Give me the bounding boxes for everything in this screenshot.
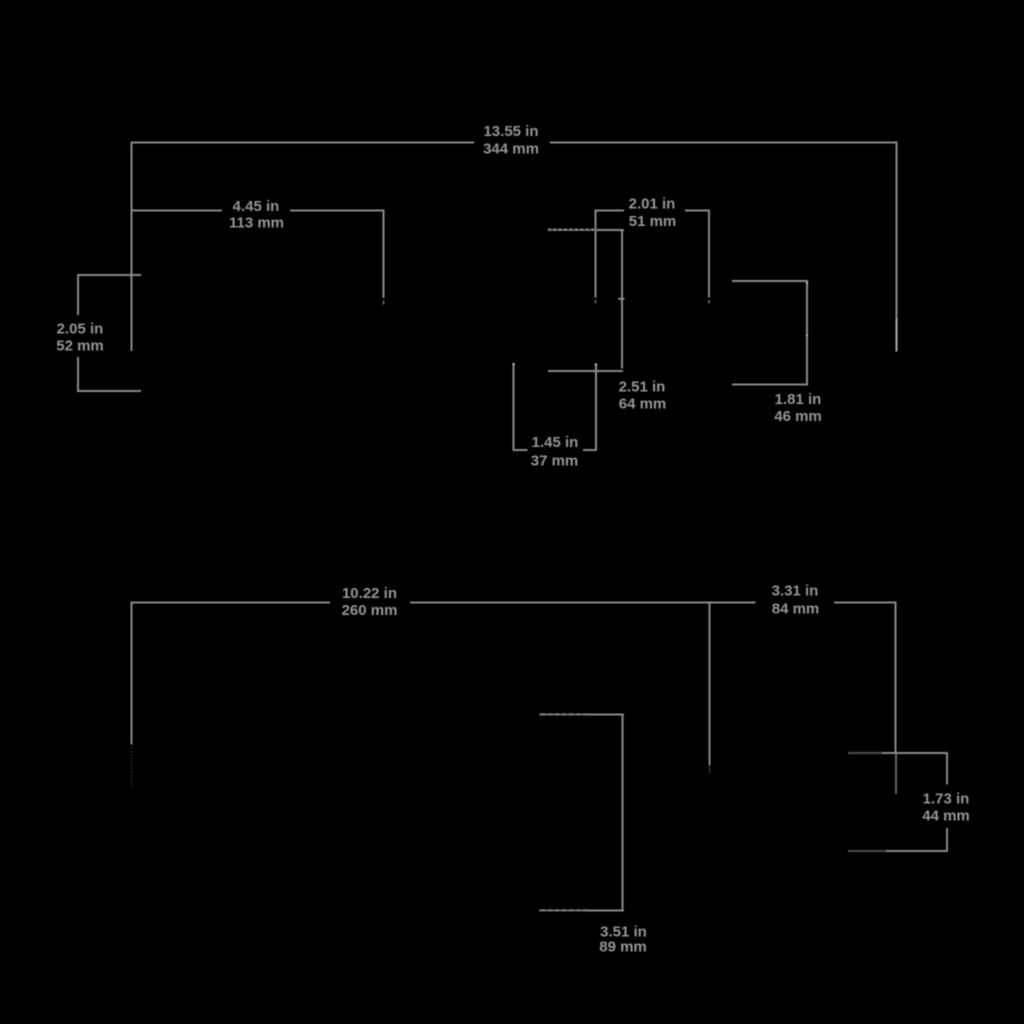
svg-text:13.55 in: 13.55 in (483, 123, 538, 140)
dim 3.31in right extension vertical thin lower part (895, 753, 897, 794)
svg-text:64 mm: 64 mm (619, 396, 667, 413)
svg-text:4.45 in: 4.45 in (233, 198, 280, 215)
dim 2.51in top tick bright dashes (548, 229, 596, 231)
svg-text:46 mm: 46 mm (774, 408, 822, 425)
svg-text:2.51 in: 2.51 in (619, 379, 666, 396)
dim 1.45in right extension vertical (595, 364, 597, 451)
dim 2.05in vertical lower segment (77, 357, 79, 392)
dim 3.51in right vertical (622, 714, 624, 912)
dim 2.05in top tick (77, 274, 141, 276)
svg-text:52 mm: 52 mm (56, 338, 104, 355)
dim 13.55in left extension vertical (131, 142, 133, 352)
svg-text:260 mm: 260 mm (342, 602, 398, 619)
svg-text:44 mm: 44 mm (922, 808, 970, 825)
dim 3.31in right extension vertical (895, 602, 897, 754)
dim 2.05in bottom tick (77, 390, 141, 392)
dim 1.73in top horizontal dark part (848, 752, 882, 754)
dim 3.51in bottom horizontal solid part (540, 910, 542, 912)
dim 1.73in right extension vertical lower (946, 828, 948, 852)
dim 1.45in bottom horizontal right segment (583, 449, 597, 451)
svg-text:1.73 in: 1.73 in (923, 791, 970, 808)
svg-text:2.05 in: 2.05 in (57, 321, 104, 338)
dim 3.51in top horizontal bright dashes (541, 713, 587, 715)
artifact dot 1.81 top corner (806, 282, 808, 284)
dim 3.51in bottom horizontal bright dashes (541, 909, 587, 911)
dim 10.22in divider vertical faint tail (709, 765, 711, 773)
svg-text:113 mm: 113 mm (229, 215, 284, 232)
dim 2.01in left extension vertical (595, 210, 597, 298)
svg-text:344 mm: 344 mm (483, 141, 539, 158)
svg-text:3.31 in: 3.31 in (772, 583, 819, 600)
dim 10.22in left extension dark dashed tail (131, 744, 133, 788)
dim 10.22in horizontal left segment (131, 602, 330, 604)
dim 10.22in horizontal middle segment (410, 602, 756, 604)
dim 2.51in top tick dark underlay (548, 229, 596, 231)
dim 13.55in right extension vertical lower (896, 319, 898, 352)
dim 4.45in horizontal line right segment (290, 210, 385, 212)
dim 4.45in right extension vertical (383, 210, 385, 299)
dim 10.22in divider vertical (709, 602, 711, 766)
dim 13.55in horizontal line right segment (550, 142, 898, 144)
artifact tick 2.51 vertical crossing (618, 298, 625, 300)
dim 13.55in right extension vertical upper (896, 142, 898, 319)
dim 2.01in left extension nub (595, 300, 597, 304)
dim 13.55in horizontal line left segment (131, 142, 474, 144)
svg-text:37 mm: 37 mm (531, 453, 579, 470)
dim 3.51in top horizontal solid part (540, 714, 542, 716)
dim 3.51in top horizontal dark underlay (541, 714, 587, 716)
svg-text:89 mm: 89 mm (599, 939, 647, 956)
dim 2.01in horizontal right segment (685, 210, 710, 212)
dim 2.01in right extension vertical (708, 210, 710, 298)
dim 1.73in right extension vertical upper (946, 752, 948, 785)
dim 1.81in right extension vertical (806, 280, 808, 386)
dim 2.51in top tick solid part (596, 229, 624, 231)
artifact dot 1.45 left top (513, 363, 515, 365)
dim 2.05in vertical upper segment (77, 274, 79, 315)
dim 2.51in vertical (621, 229, 623, 369)
dim 1.45in bottom horizontal left segment (513, 449, 528, 451)
dim 1.73in bottom horizontal dark part (848, 850, 886, 852)
artifact dot 1.45 right top (595, 364, 597, 366)
dim 1.45in left extension vertical (513, 364, 515, 451)
dim 4.45in right extension nub (383, 301, 385, 305)
svg-text:1.81 in: 1.81 in (775, 391, 822, 408)
dim 1.73in top horizontal (882, 752, 948, 754)
svg-text:1.45 in: 1.45 in (532, 434, 579, 451)
dim 1.81in top horizontal (732, 280, 808, 282)
dim 1.81in bottom horizontal (732, 384, 808, 386)
dim 3.51in bottom horizontal dark underlay (541, 910, 587, 912)
dim 3.31in horizontal right segment (834, 602, 897, 604)
artifact dot 1.81 mid (806, 335, 808, 337)
dim 4.45in horizontal line left segment (131, 210, 222, 212)
dim 10.22in left extension vertical (131, 602, 133, 745)
dim 2.01in right extension nub (708, 300, 710, 304)
svg-text:84 mm: 84 mm (772, 601, 820, 618)
dim 2.01in horizontal left segment (595, 210, 624, 212)
svg-text:51 mm: 51 mm (629, 213, 677, 230)
dim 2.51in bottom tick (548, 370, 623, 372)
svg-text:2.01 in: 2.01 in (629, 196, 676, 213)
svg-text:10.22 in: 10.22 in (342, 585, 397, 602)
dim 1.73in bottom horizontal (886, 850, 948, 852)
